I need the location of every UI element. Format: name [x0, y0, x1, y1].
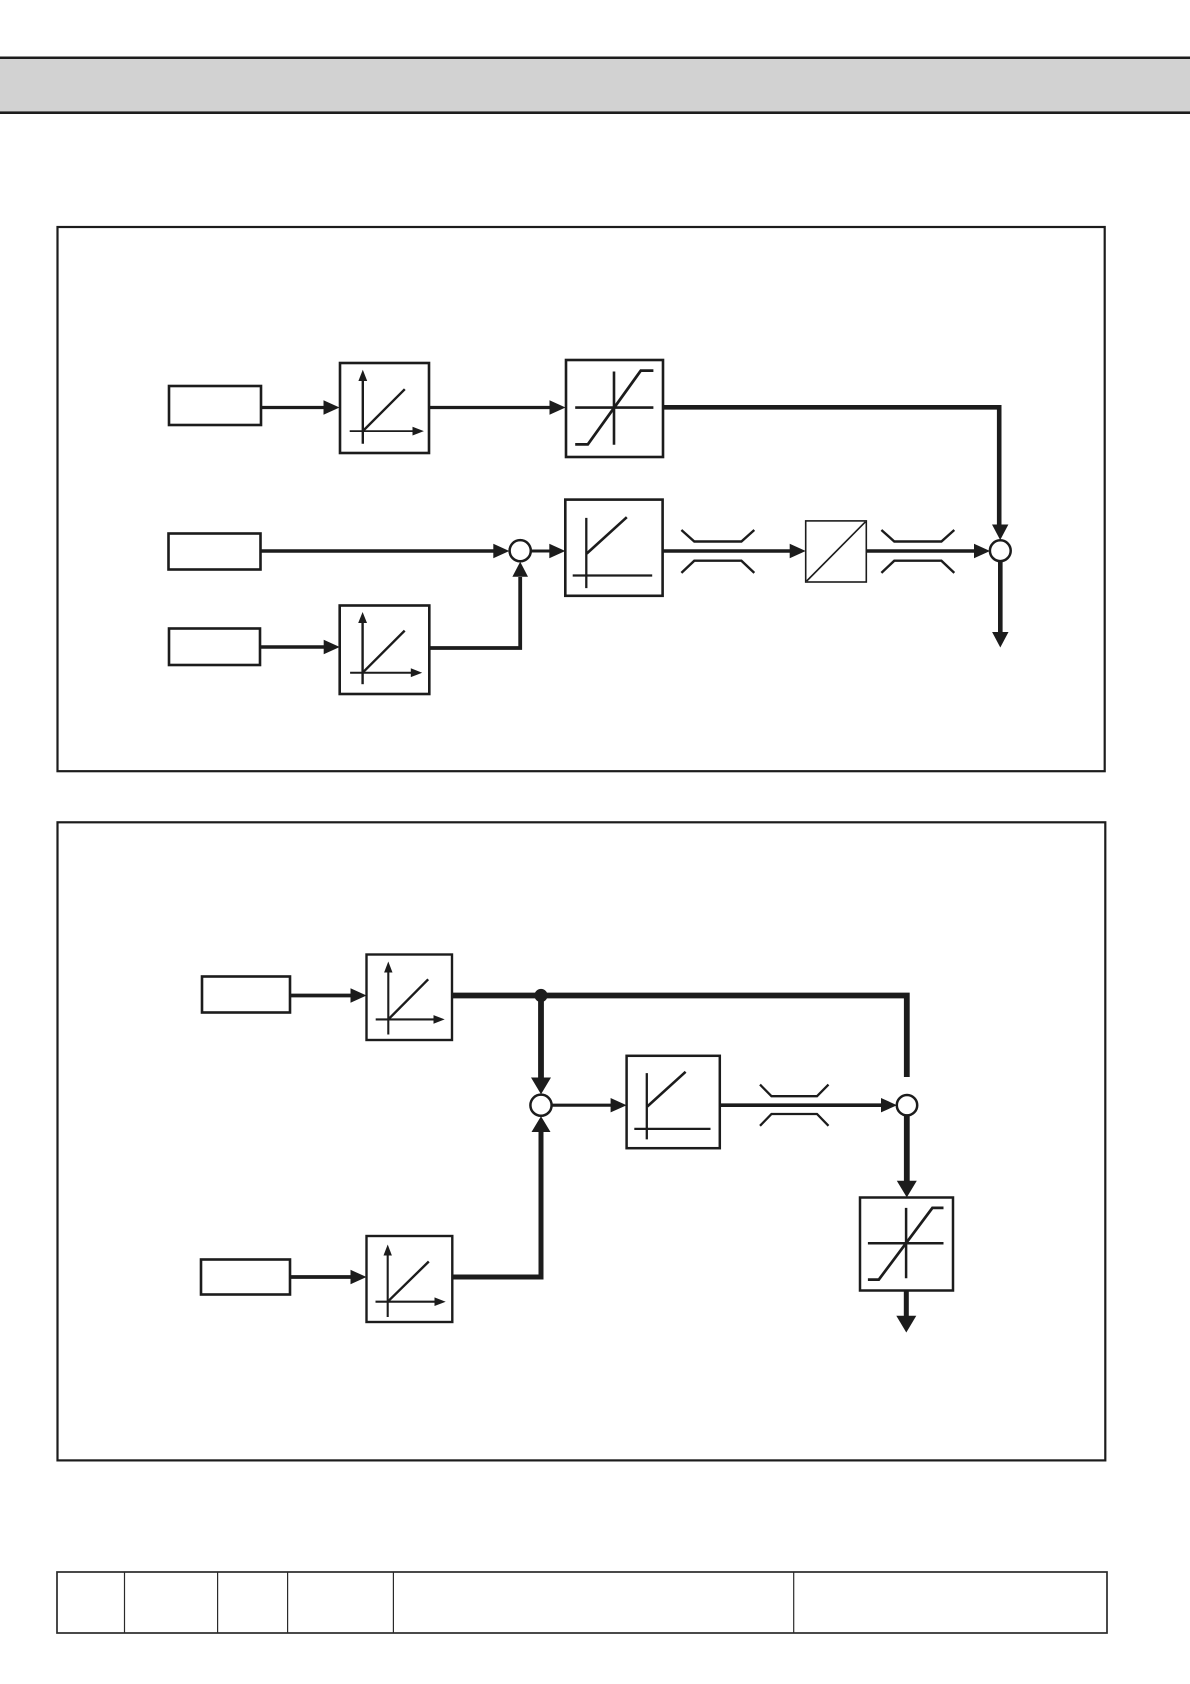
- output wire from limiter block: [904, 1291, 909, 1318]
- ramp block U6 (gain characteristic): [367, 955, 453, 1041]
- arrowhead into S4: [881, 1098, 897, 1112]
- PI controller block U3: [565, 500, 662, 596]
- limit indicator symbol L3 lower: [760, 1114, 829, 1126]
- arrowhead into S2 top: [992, 525, 1008, 541]
- arrowhead into S2: [974, 544, 990, 558]
- wire S1 to PI block: [531, 550, 552, 553]
- output wire from S2: [998, 561, 1003, 633]
- header bar bottom rule: [0, 111, 1190, 114]
- footer table divider 3: [287, 1572, 289, 1633]
- wire S3 to PID block: [552, 1104, 613, 1107]
- arrowhead into S3 top: [531, 1078, 551, 1095]
- summing junction S4: [897, 1095, 917, 1115]
- arrowhead into S3 bottom: [532, 1116, 551, 1132]
- summing junction S2: [990, 540, 1011, 561]
- footer table divider 4: [392, 1572, 394, 1633]
- wire divider block to summing junction S2: [866, 549, 976, 553]
- limit indicator symbol L1 lower: [681, 561, 754, 573]
- header bar gray band: [0, 59, 1190, 111]
- PI controller block U7: [627, 1056, 720, 1148]
- wire PID block to summing junction S4: [720, 1103, 883, 1107]
- wire ramp block U5 to S1 (right then up): [429, 577, 520, 648]
- arrowhead into ramp block U5: [324, 640, 340, 654]
- arrowhead into limiter: [550, 400, 566, 414]
- input box P2 (middle row): [169, 534, 261, 570]
- summing junction S3: [530, 1095, 551, 1116]
- arrowhead into PI block: [549, 544, 565, 558]
- wire P4 to ramp block U6: [290, 994, 352, 998]
- limiter block U2 (saturation characteristic): [566, 360, 663, 457]
- arrowhead into divider block: [790, 544, 806, 558]
- footer table outer border: [57, 1572, 1107, 1633]
- wire P2 to summing junction S1: [261, 549, 496, 553]
- input box P3 (bottom row): [169, 629, 260, 666]
- arrowhead into ramp block U9: [351, 1270, 367, 1284]
- input box P1 (top row): [169, 386, 261, 425]
- thick wire node A down to summing junction S3: [538, 996, 544, 1079]
- output arrowhead diagram 2: [896, 1316, 916, 1333]
- limit indicator symbol L2 upper: [881, 530, 954, 542]
- junction dot node A: [534, 989, 547, 1002]
- divider block U4: [806, 521, 867, 582]
- thick wire S4 down to limiter block: [904, 1115, 910, 1182]
- header bar top rule: [0, 57, 1190, 60]
- arrowhead into S1 bottom: [512, 562, 528, 577]
- input box P5 (bottom row): [201, 1260, 290, 1295]
- wire ramp block to limiter: [429, 406, 552, 409]
- wire P1 to ramp block: [261, 406, 325, 409]
- ramp block U9 (gain characteristic): [367, 1236, 453, 1322]
- wire PI block to divider block: [663, 549, 792, 553]
- limiter block U8 (saturation characteristic): [860, 1198, 953, 1291]
- limit indicator symbol L2 lower: [881, 561, 954, 573]
- footer table divider 1: [124, 1572, 126, 1633]
- output arrowhead diagram 1: [992, 632, 1008, 648]
- footer table divider 2: [217, 1572, 219, 1633]
- input box P4 (top row): [202, 977, 290, 1013]
- wire P5 to ramp block U9: [290, 1275, 352, 1279]
- arrowhead into PID block: [611, 1098, 627, 1112]
- ramp block U1 (gain characteristic): [340, 363, 429, 453]
- thick wire limiter to right corner and down to summing junction S2: [663, 407, 999, 526]
- wire P3 to ramp block: [260, 645, 325, 649]
- arrowhead into ramp block U6: [351, 988, 367, 1002]
- diagram 1 frame: [58, 227, 1105, 771]
- summing junction S1: [510, 540, 531, 561]
- limit indicator symbol L1 upper: [681, 530, 754, 542]
- arrowhead into limiter block top: [897, 1181, 917, 1198]
- ramp block U5 (gain characteristic): [340, 606, 430, 695]
- arrowhead into ramp block: [324, 400, 340, 414]
- footer table divider 5: [793, 1572, 795, 1633]
- limit indicator symbol L3 upper: [760, 1085, 829, 1097]
- wire ramp block U9 to S3 (right then up): [452, 1132, 541, 1277]
- thick wire U6 to right corner and down to summing junction S4: [452, 996, 907, 1078]
- arrowhead into S1: [493, 544, 509, 558]
- diagram 2 frame: [58, 822, 1106, 1460]
